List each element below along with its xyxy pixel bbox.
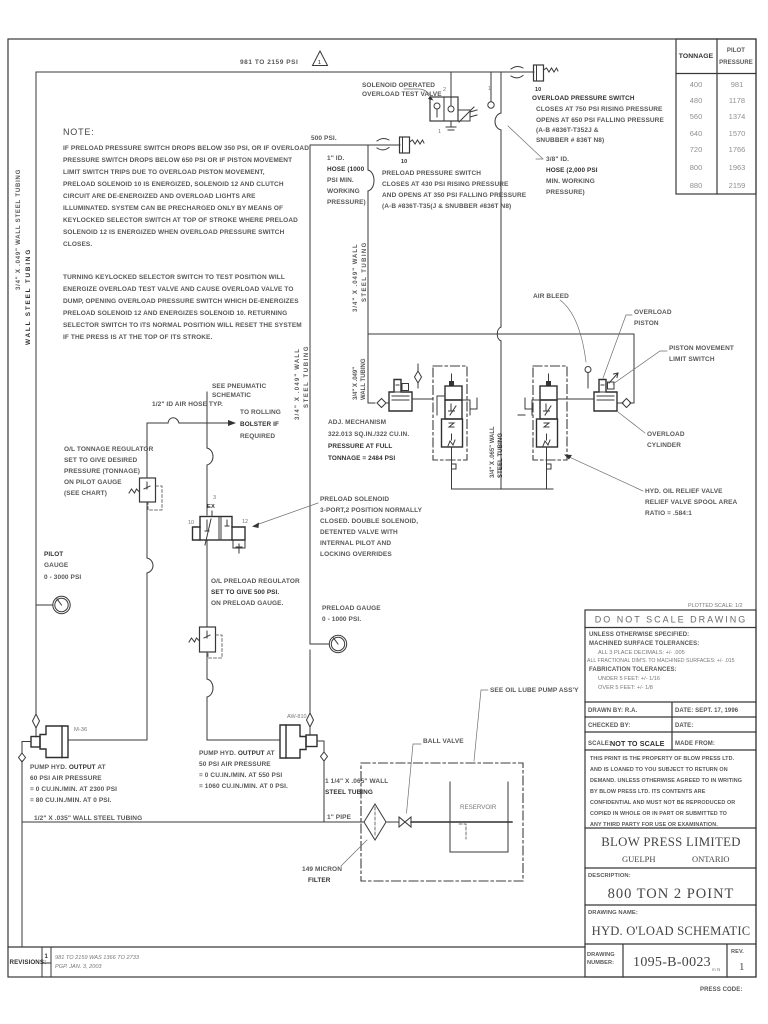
air bleed symbol (585, 367, 591, 373)
leader to test valve (404, 89, 432, 99)
svg-text:CIRCUIT ARE DE-ENERGIZED AND O: CIRCUIT ARE DE-ENERGIZED AND OVERLOAD LI… (63, 193, 256, 200)
svg-text:10: 10 (535, 87, 541, 93)
SCHEMATIC TOP AREA (16, 51, 664, 714)
svg-text:SELECTOR SWITCH TO ITS NORMAL: SELECTOR SWITCH TO ITS NORMAL POSITION W… (63, 322, 302, 329)
wire air manifold y334 (368, 333, 634, 335)
svg-text:DEMAND. UNLESS OTHERWISE AGREE: DEMAND. UNLESS OTHERWISE AGREED TO IN WR… (590, 778, 742, 784)
preload valve left end block (193, 527, 201, 540)
wire pilot line left vertical drop (35, 72, 37, 714)
svg-text:ILLUMINATED. SYSTEM CAN BE PR: ILLUMINATED. SYSTEM CAN BE PRECHARGED ON… (63, 205, 283, 212)
left overload cylinder (389, 380, 412, 412)
hose loop on x147 (147, 558, 153, 573)
tonnage regulator spring (129, 489, 140, 493)
svg-text:AIR BLEED: AIR BLEED (533, 293, 569, 300)
wire regulator drop x147 (68, 423, 147, 740)
svg-text:SEE PNEUMATIC: SEE PNEUMATIC (212, 383, 266, 390)
revision strip top line (8, 946, 585, 948)
limit switch mark (608, 382, 615, 389)
svg-text:PSI MIN.: PSI MIN. (327, 177, 354, 184)
svg-text:1: 1 (488, 86, 491, 92)
leader air bleed (560, 300, 586, 362)
overload pressure switch (534, 65, 544, 81)
AW810 suction check (321, 752, 328, 761)
reservoir enclosure dash-dot (361, 763, 523, 881)
svg-text:AND IS LOANED TO YOU SUBJECT T: AND IS LOANED TO YOU SUBJECT TO RETURN O… (590, 767, 728, 773)
table frame (676, 39, 756, 194)
svg-text:STEEL TUBING: STEEL TUBING (362, 241, 368, 302)
svg-text:1095-B-0023: 1095-B-0023 (633, 955, 711, 970)
svg-text:PISTON MOVEMENT: PISTON MOVEMENT (669, 345, 734, 352)
svg-text:m N: m N (712, 967, 720, 972)
svg-text:1/2" X .035" WALL STEEL TUBING: 1/2" X .035" WALL STEEL TUBING (34, 815, 142, 822)
svg-text:SEE OIL LUBE PUMP ASS'Y: SEE OIL LUBE PUMP ASS'Y (490, 687, 579, 694)
right relief valve stack (518, 374, 594, 489)
svg-text:HOSE (2,000 PSI: HOSE (2,000 PSI (546, 167, 598, 174)
svg-text:1570: 1570 (729, 129, 746, 138)
pump AW-810 right port (306, 735, 317, 747)
wire below preload valve to regulator (207, 540, 280, 740)
wire preload gauge stub (310, 643, 329, 645)
svg-text:OPENS AT 650 PSI FALLING PRESS: OPENS AT 650 PSI FALLING PRESSURE (536, 117, 664, 124)
number row (585, 944, 756, 977)
svg-text:OVERLOAD: OVERLOAD (634, 309, 672, 316)
hose marks on main line before overload switch (511, 66, 523, 77)
preload switch spring (410, 140, 425, 144)
svg-text:ONTARIO: ONTARIO (692, 854, 730, 864)
preload valve internals (205, 519, 229, 545)
leader oil lube (474, 690, 488, 761)
valve box upper (445, 386, 462, 400)
svg-text:STEEL TUBING: STEEL TUBING (498, 433, 504, 478)
svg-text:981: 981 (731, 80, 744, 89)
leader preload solenoid (256, 503, 318, 525)
M36 suction check (19, 753, 26, 762)
svg-text:DATE: SEPT. 17, 1996: DATE: SEPT. 17, 1996 (675, 708, 739, 714)
table header underline (676, 73, 756, 75)
reservoir suction dashes (459, 824, 466, 839)
svg-text:1" PIPE: 1" PIPE (327, 814, 352, 821)
wire test valve drop (450, 72, 452, 97)
preload valve top stub (211, 511, 213, 517)
svg-text:NUMBER:: NUMBER: (587, 960, 614, 966)
test valve check symbols (434, 103, 440, 109)
svg-text:SOLENOID OPERATED: SOLENOID OPERATED (362, 82, 435, 89)
o/l tonnage regulator (140, 478, 156, 502)
TITLE BLOCK (585, 603, 756, 993)
test valve solenoid box (458, 110, 470, 121)
company row (585, 827, 756, 829)
wire suction line y822 (22, 821, 364, 823)
preload gauge (329, 635, 346, 652)
svg-text:DETENTED VALVE WITH: DETENTED VALVE WITH (320, 529, 398, 536)
svg-text:981 TO 2159 PSI: 981 TO 2159 PSI (240, 59, 298, 66)
svg-text:2159: 2159 (729, 181, 746, 190)
svg-text:= 80 CU.IN./MIN. AT 0 PSI.: = 80 CU.IN./MIN. AT 0 PSI. (30, 797, 112, 804)
test valve drain (446, 121, 456, 130)
svg-text:3/4" X .049": 3/4" X .049" (353, 367, 359, 400)
left relief valve stack (437, 374, 477, 489)
svg-text:WALL STEEL TUBING: WALL STEEL TUBING (25, 248, 32, 345)
svg-text:PRESSURE: PRESSURE (719, 60, 753, 66)
svg-text:(SEE CHART): (SEE CHART) (64, 490, 107, 497)
svg-text:O/L TONNAGE REGULATOR: O/L TONNAGE REGULATOR (64, 446, 154, 453)
filter diamond (364, 804, 386, 840)
svg-text:INTERNAL PILOT AND: INTERNAL PILOT AND (320, 540, 391, 547)
svg-text:ALL FRACTIONAL DIM'S. TO MACHI: ALL FRACTIONAL DIM'S. TO MACHINED SURFAC… (587, 658, 735, 664)
svg-text:NOT TO SCALE: NOT TO SCALE (610, 739, 665, 748)
svg-text:1: 1 (318, 60, 321, 66)
svg-text:1963: 1963 (729, 163, 746, 172)
svg-text:IF THE PRESS IS AT THE TOP OF: IF THE PRESS IS AT THE TOP OF ITS STROKE… (63, 334, 212, 341)
pump M-36 body (40, 726, 68, 758)
left cyl check (377, 399, 389, 408)
svg-text:SET TO GIVE DESIRED: SET TO GIVE DESIRED (64, 457, 138, 464)
svg-text:PRESSURE AT FULL: PRESSURE AT FULL (328, 443, 392, 450)
NOTE TEXT BLOCK (63, 127, 309, 341)
svg-text:UNLESS OTHERWISE SPECIFIED:: UNLESS OTHERWISE SPECIFIED: (589, 632, 689, 638)
svg-text:720: 720 (690, 145, 703, 154)
svg-text:1 1/4" X .065" WALL: 1 1/4" X .065" WALL (325, 778, 388, 785)
preload valve drain box (233, 540, 245, 553)
svg-text:= 0 CU.IN./MIN. AT 550 PSI: = 0 CU.IN./MIN. AT 550 PSI (199, 772, 282, 779)
crossing hop on x501 at y334 (497, 327, 501, 341)
svg-text:TO ROLLING: TO ROLLING (240, 409, 281, 416)
svg-text:GUELPH: GUELPH (622, 854, 656, 864)
ball valve symbol (399, 817, 411, 827)
TONNAGE TABLE top right (676, 39, 756, 194)
wire preload supply x310 (309, 145, 311, 713)
svg-text:PRELOAD SOLENOID 12 AND ENERGI: PRELOAD SOLENOID 12 AND ENERGIZES SOLENO… (63, 310, 287, 317)
svg-text:AW-810: AW-810 (287, 714, 307, 720)
svg-text:LOCKING OVERRIDES: LOCKING OVERRIDES (320, 551, 392, 558)
hose loop on x368 (368, 170, 374, 191)
svg-text:REQUIRED: REQUIRED (240, 433, 275, 440)
svg-text:60 PSI AIR PRESSURE: 60 PSI AIR PRESSURE (30, 775, 102, 782)
svg-text:KEYLOCKED SELECTOR SWITCH AT T: KEYLOCKED SELECTOR SWITCH AT TOP OF STRO… (63, 217, 298, 224)
svg-text:THIS PRINT IS THE PROPERTY OF: THIS PRINT IS THE PROPERTY OF BLOW PRESS… (590, 756, 735, 762)
svg-text:OVERLOAD PRESSURE SWITCH: OVERLOAD PRESSURE SWITCH (532, 95, 635, 102)
svg-text:1374: 1374 (729, 112, 746, 121)
SCHEMATIC LEFT / AIR CIRCUIT (19, 383, 423, 947)
reservoir (450, 782, 508, 852)
svg-text:RELIEF VALVE SPOOL AREA: RELIEF VALVE SPOOL AREA (645, 499, 738, 506)
hop on air hose line (168, 418, 179, 423)
left port J (437, 396, 445, 415)
wire filter to ball valve (386, 821, 399, 823)
svg-text:DRAWING: DRAWING (587, 952, 615, 958)
svg-text:400: 400 (690, 80, 703, 89)
svg-text:PILOT: PILOT (44, 551, 63, 558)
valve box upper (540, 386, 557, 400)
svg-text:(A-B #836T-T35(J & SNUBBER #83: (A-B #836T-T35(J & SNUBBER #836T N8) (382, 203, 511, 210)
svg-text:CLOSES.: CLOSES. (63, 241, 92, 248)
pump M-36 check up (33, 714, 40, 728)
svg-text:2: 2 (443, 87, 446, 93)
wire AW810 suction (317, 741, 324, 822)
svg-text:REV.: REV. (731, 949, 744, 955)
do not scale row (585, 627, 756, 629)
svg-text:ON PRELOAD GAUGE.: ON PRELOAD GAUGE. (211, 600, 284, 607)
hose loop on x207 upper (207, 448, 213, 465)
svg-text:1766: 1766 (729, 145, 746, 154)
svg-text:NOTE:: NOTE: (63, 127, 95, 137)
svg-text:EX: EX (207, 504, 215, 510)
svg-text:500 PSI.: 500 PSI. (311, 135, 337, 142)
svg-text:880: 880 (690, 181, 703, 190)
svg-text:PRESSURE SWITCH DROPS BELOW 65: PRESSURE SWITCH DROPS BELOW 650 PSI OR I… (63, 157, 292, 164)
svg-text:800 TON 2 POINT: 800 TON 2 POINT (608, 886, 735, 902)
svg-text:CHECKED BY:: CHECKED BY: (588, 723, 630, 729)
svg-text:TONNAGE = 2484 PSI: TONNAGE = 2484 PSI (328, 455, 395, 462)
svg-text:PILOT: PILOT (727, 48, 745, 54)
svg-text:WALL TUBING: WALL TUBING (361, 358, 367, 400)
leader overload cylinder (618, 412, 645, 433)
left port U (518, 398, 540, 415)
description row (585, 867, 756, 869)
svg-text:CLOSES AT 750 PSI RISING PRESS: CLOSES AT 750 PSI RISING PRESSURE (536, 106, 663, 113)
svg-text:ON PILOT GAUGE: ON PILOT GAUGE (64, 479, 122, 486)
svg-text:CLOSES AT 430 PSI RISING PRESS: CLOSES AT 430 PSI RISING PRESSURE (382, 181, 509, 188)
svg-text:1/2" ID AIR HOSE TYP.: 1/2" ID AIR HOSE TYP. (152, 401, 223, 408)
svg-text:STEEL TUBING: STEEL TUBING (304, 345, 310, 408)
preload pressure switch (400, 137, 410, 153)
leader relief valve (567, 456, 643, 491)
svg-text:CONFIDENTIAL AND MUST NOT BE R: CONFIDENTIAL AND MUST NOT BE REPRODUCED … (590, 800, 735, 806)
svg-text:DRAWING NAME:: DRAWING NAME: (588, 910, 638, 916)
svg-text:0 - 3000 PSI: 0 - 3000 PSI (44, 574, 81, 581)
svg-text:3/4" X .049" WALL STEEL TUBING: 3/4" X .049" WALL STEEL TUBING (16, 169, 22, 290)
svg-text:AND OPENS AT 350 PSI FALLING P: AND OPENS AT 350 PSI FALLING PRESSURE (382, 192, 527, 199)
svg-text:1: 1 (45, 954, 49, 960)
wire M36 suction (22, 742, 31, 948)
svg-text:PRELOAD PRESSURE SWITCH: PRELOAD PRESSURE SWITCH (382, 170, 481, 177)
o/l preload regulator (200, 627, 216, 652)
svg-text:LIMIT SWITCH: LIMIT SWITCH (669, 356, 715, 363)
svg-text:PRESS CODE:: PRESS CODE: (700, 987, 742, 993)
svg-text:PRELOAD SOLENOID 10 IS ENERGIZ: PRELOAD SOLENOID 10 IS ENERGIZED, SOLENO… (63, 181, 284, 188)
svg-text:800: 800 (690, 163, 703, 172)
wire 500 psi line (310, 144, 400, 146)
svg-text:SET TO GIVE 500 PSI.: SET TO GIVE 500 PSI. (211, 589, 279, 596)
svg-text:PRELOAD GAUGE: PRELOAD GAUGE (322, 605, 381, 612)
valve box lower (537, 419, 558, 447)
svg-text:TONNAGE: TONNAGE (679, 53, 714, 60)
svg-text:3/4" X .049" WALL: 3/4" X .049" WALL (353, 243, 359, 312)
right cyl check (617, 402, 623, 404)
preload regulator dashed pilot box (208, 635, 222, 658)
wire left cyl to valve (412, 398, 433, 400)
wire bottom manifold (452, 488, 554, 490)
wire ball valve to reservoir (411, 821, 512, 823)
svg-text:1" ID.: 1" ID. (327, 155, 345, 162)
SCHEMATIC CENTER - OVERLOAD VALVES (328, 293, 738, 517)
revision label cell divider (42, 947, 51, 977)
svg-text:WORKING: WORKING (327, 188, 360, 195)
svg-text:COPIED IN WHOLE OR IN PART OR: COPIED IN WHOLE OR IN PART OR SUBMITTED … (590, 811, 727, 817)
solenoid dot (546, 381, 551, 386)
left cyl check stub (417, 364, 419, 388)
overload switch spring (544, 68, 559, 72)
solenoid dot (449, 381, 454, 386)
svg-text:1: 1 (438, 129, 441, 135)
preload valve right end block (232, 527, 245, 540)
svg-text:3/4" X .049" WALL: 3/4" X .049" WALL (295, 348, 301, 420)
svg-text:FILTER: FILTER (308, 877, 331, 884)
preload solenoid valve body (200, 517, 232, 541)
svg-text:50 PSI AIR PRESSURE: 50 PSI AIR PRESSURE (199, 761, 271, 768)
svg-text:PRESSURE): PRESSURE) (546, 189, 585, 196)
svg-text:3/4" X .065" WALL: 3/4" X .065" WALL (490, 426, 496, 478)
svg-text:MIN. WORKING: MIN. WORKING (546, 178, 595, 185)
svg-text:PRESSURE (TONNAGE): PRESSURE (TONNAGE) (64, 468, 140, 475)
svg-text:10: 10 (401, 159, 407, 165)
svg-text:ANY THIRD PARTY FOR USE OR EXA: ANY THIRD PARTY FOR USE OR EXAMINATION. (590, 822, 718, 828)
tonnage regulator dashed pilot box (148, 486, 162, 510)
leader filter (341, 840, 367, 866)
svg-text:BLOW PRESS LIMITED: BLOW PRESS LIMITED (601, 835, 741, 849)
svg-text:FABRICATION TOLERANCES:: FABRICATION TOLERANCES: (589, 667, 677, 673)
svg-text:LIMIT SWITCH TRIPS DUE TO OVER: LIMIT SWITCH TRIPS DUE TO OVERLOAD PISTO… (63, 169, 265, 176)
revisions strip (8, 947, 585, 977)
svg-text:12: 12 (242, 519, 248, 525)
svg-text:1178: 1178 (729, 96, 745, 105)
title block frame (585, 610, 756, 977)
warning triangle 1 (313, 51, 328, 66)
svg-text:HOSE (1000: HOSE (1000 (327, 166, 365, 173)
svg-text:0 - 1000 PSI.: 0 - 1000 PSI. (322, 616, 361, 623)
svg-text:PUMP HYD. OUTPUT AT: PUMP HYD. OUTPUT AT (30, 764, 106, 771)
spring bottom (448, 440, 455, 446)
pilot gauge (53, 596, 70, 613)
hose loop on x207 lower (207, 679, 213, 697)
svg-text:HYD. O'LOAD SCHEMATIC: HYD. O'LOAD SCHEMATIC (592, 924, 751, 938)
svg-text:PRESSURE): PRESSURE) (327, 199, 366, 206)
drawn by row (585, 702, 756, 750)
svg-text:MACHINED SURFACE TOLERANCES:: MACHINED SURFACE TOLERANCES: (589, 641, 699, 647)
svg-text:(A-B #836T-T352J &: (A-B #836T-T352J & (536, 127, 599, 134)
pump M-36 left port (31, 737, 40, 748)
SCHEMATIC BOTTOM - FILTER AND RESERVOIR (302, 687, 579, 884)
leader ball valve (407, 744, 422, 813)
svg-text:MADE FROM:: MADE FROM: (675, 741, 715, 747)
svg-text:PISTON: PISTON (634, 320, 659, 327)
svg-text:REVISIONS:: REVISIONS: (10, 959, 47, 966)
svg-text:UNDER 5 FEET: +/- 1/16: UNDER 5 FEET: +/- 1/16 (598, 676, 660, 682)
valve box lower (442, 419, 463, 447)
drawing name row (585, 904, 756, 906)
wire pilot gauge stub (36, 604, 53, 606)
svg-text:10: 10 (188, 520, 194, 526)
svg-text:O/L PRELOAD REGULATOR: O/L PRELOAD REGULATOR (211, 578, 300, 585)
wire air hose horizontal (147, 422, 229, 424)
leader limit switch (613, 351, 667, 384)
svg-text:DRAWN BY: R.A.: DRAWN BY: R.A. (588, 708, 638, 714)
svg-text:3: 3 (213, 495, 216, 501)
table column divider (716, 39, 718, 194)
leader overload piston (603, 315, 632, 378)
svg-text:149 MICRON: 149 MICRON (302, 866, 342, 873)
valve box mid (445, 400, 462, 419)
pump AW-810 check up (307, 713, 314, 727)
svg-text:M-36: M-36 (74, 727, 87, 733)
svg-text:3-PORT,2 POSITION NORMALLY: 3-PORT,2 POSITION NORMALLY (320, 507, 423, 514)
left cyl top box (402, 384, 409, 391)
svg-text:PUMP HYD. OUTPUT AT: PUMP HYD. OUTPUT AT (199, 750, 275, 757)
svg-text:480: 480 (690, 96, 703, 105)
svg-text:DESCRIPTION:: DESCRIPTION: (588, 873, 631, 879)
svg-text:TURNING KEYLOCKED SELECTOR SWI: TURNING KEYLOCKED SELECTOR SWITCH TO TES… (63, 274, 285, 281)
hose marks on 500 psi line (377, 138, 389, 149)
hose loop on x501 (495, 113, 501, 130)
svg-text:OVER 5 FEET: +/- 1/8: OVER 5 FEET: +/- 1/8 (598, 685, 653, 691)
svg-text:560: 560 (690, 112, 703, 121)
right overload cylinder (594, 380, 617, 412)
leader hose label (508, 126, 543, 159)
svg-text:STEEL TUBING: STEEL TUBING (325, 789, 373, 796)
wire air supply x207 (206, 392, 208, 515)
arrow to rolling bolster (228, 420, 236, 426)
svg-text:= 1060 CU.IN./MIN. AT 0 PSI.: = 1060 CU.IN./MIN. AT 0 PSI. (199, 783, 288, 790)
svg-text:RATIO = .584:1: RATIO = .584:1 (645, 510, 692, 517)
svg-text:SCHEMATIC: SCHEMATIC (212, 392, 251, 399)
svg-text:322.013 SQ.IN./322 CU.IN.: 322.013 SQ.IN./322 CU.IN. (328, 431, 409, 438)
svg-text:SOLENOID 12 IS ENERGIZED WHEN: SOLENOID 12 IS ENERGIZED WHEN OVERLOAD P… (63, 229, 285, 236)
svg-text:BY BLOW PRESS LTD. ITS CONTENT: BY BLOW PRESS LTD. ITS CONTENTS ARE (590, 789, 706, 795)
svg-text:ADJ. MECHANISM: ADJ. MECHANISM (328, 419, 386, 426)
bottom port (547, 447, 552, 489)
svg-text:3/8" ID.: 3/8" ID. (546, 156, 569, 163)
svg-text:CYLINDER: CYLINDER (647, 442, 681, 449)
svg-text:BALL VALVE: BALL VALVE (423, 738, 464, 745)
svg-text:1: 1 (739, 961, 745, 973)
svg-text:SNUBBER # 836T N8): SNUBBER # 836T N8) (536, 137, 604, 144)
right port line to cylinder (557, 398, 594, 400)
bleed stub on main line (490, 72, 492, 101)
svg-text:OVERLOAD: OVERLOAD (647, 431, 685, 438)
bottom port (452, 447, 457, 489)
preload regulator spring (189, 638, 200, 642)
svg-text:DATE:: DATE: (675, 723, 693, 729)
svg-text:PRELOAD SOLENOID: PRELOAD SOLENOID (320, 496, 389, 503)
right port U (462, 398, 477, 415)
valve box mid (540, 400, 557, 419)
svg-text:981 TO 2159 WAS 1366 TO 2733: 981 TO 2159 WAS 1366 TO 2733 (55, 955, 140, 961)
svg-text:640: 640 (690, 129, 703, 138)
svg-text:PGP. JAN. 3, 2003: PGP. JAN. 3, 2003 (55, 964, 102, 970)
pump AW-810 body (280, 725, 306, 758)
svg-text:ENERGIZE OVERLOAD TEST VALVE A: ENERGIZE OVERLOAD TEST VALVE AND CAUSE O… (63, 286, 293, 293)
wire right drop x634 (630, 334, 634, 403)
svg-text:ALL 3 PLACE DECIMALS: +/- .005: ALL 3 PLACE DECIMALS: +/- .005 (598, 650, 685, 656)
solenoid overload test valve body (430, 97, 458, 121)
left relief valve enclosure (433, 366, 467, 460)
wire left cyl feed (368, 402, 375, 404)
svg-text:BOLSTER IF: BOLSTER IF (240, 421, 279, 428)
svg-text:= 0 CU.IN./MIN. AT 2300 PSI: = 0 CU.IN./MIN. AT 2300 PSI (30, 786, 117, 793)
wire main pilot pressure line (36, 71, 534, 73)
right relief valve enclosure (533, 366, 567, 460)
svg-text:DUMP, OPENING OVERLOAD PRESSUR: DUMP, OPENING OVERLOAD PRESSURE SWITCH W… (63, 298, 299, 305)
wire preload drop x501 (500, 72, 502, 489)
svg-text:HYD. OIL RELIEF VALVE: HYD. OIL RELIEF VALVE (645, 488, 723, 495)
svg-text:CLOSED. DOUBLE SOLENOID,: CLOSED. DOUBLE SOLENOID, (320, 518, 418, 525)
spring bottom (543, 440, 550, 446)
svg-text:SCALE:: SCALE: (588, 741, 611, 747)
svg-text:PLOTTED SCALE: 1/2: PLOTTED SCALE: 1/2 (688, 603, 743, 609)
svg-text:RESERVOIR: RESERVOIR (460, 804, 497, 811)
svg-text:IF PRELOAD PRESSURE SWITCH DRO: IF PRELOAD PRESSURE SWITCH DROPS BELOW 3… (63, 145, 309, 152)
wire x368 drop (367, 145, 369, 403)
